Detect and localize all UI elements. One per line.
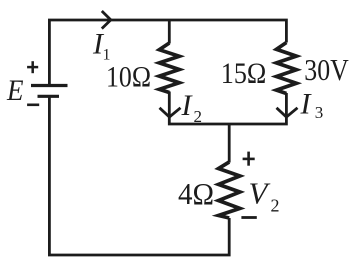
arrow I2	[160, 108, 181, 117]
minus sign below 4-ohm (V2 polarity)	[241, 216, 256, 219]
arrow I1 on top wire	[102, 11, 111, 29]
battery plus sign	[27, 61, 38, 73]
svg-text:4Ω: 4Ω	[178, 176, 214, 211]
svg-text:V: V	[249, 176, 271, 211]
wire: 10-ohm branch bottom stub + middle wire + 15-ohm bottom stub	[169, 92, 286, 125]
battery E plates	[31, 86, 68, 97]
svg-text:2: 2	[271, 196, 280, 216]
resistor R3 4 ohm	[219, 162, 240, 218]
arrow I3	[277, 108, 298, 117]
svg-text:30V: 30V	[304, 52, 349, 87]
svg-text:I: I	[300, 88, 313, 121]
battery minus sign	[27, 104, 39, 107]
plus sign above 4-ohm (V2 polarity)	[243, 152, 255, 166]
wire: 10-ohm branch top stub	[168, 20, 171, 44]
svg-text:10Ω: 10Ω	[106, 60, 151, 93]
svg-text:2: 2	[194, 107, 203, 126]
svg-text:I: I	[181, 89, 194, 122]
svg-text:3: 3	[315, 103, 324, 122]
resistor R1 10 ohm	[159, 43, 179, 93]
wire: battery negative down, bottom wire, up to 4-ohm resistor	[49, 96, 229, 255]
svg-text:15Ω: 15Ω	[221, 57, 266, 90]
svg-text:E: E	[6, 74, 23, 107]
wire: left + top + right outer loop	[49, 20, 286, 84]
wire: 4-ohm branch top stub	[228, 124, 231, 163]
resistor R2 15 ohm	[276, 43, 296, 94]
